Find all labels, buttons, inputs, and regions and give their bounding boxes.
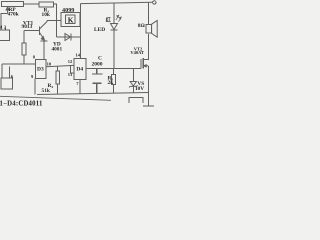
wire R5 bottom [113, 85, 115, 94]
zener VS symbol [130, 82, 136, 87]
speaker cone [152, 20, 158, 37]
LED symbol [111, 24, 118, 30]
resistor R2 (base) [22, 43, 26, 55]
resistor R4 51k [56, 71, 60, 84]
wire left input bus [2, 63, 36, 65]
wire R4 bottom [57, 84, 59, 94]
svg-text:51k: 51k [42, 88, 50, 94]
transistor VT1 collector [40, 21, 48, 30]
relay K outer box [61, 13, 80, 27]
svg-text:4099: 4099 [62, 7, 74, 14]
wire drop to D2 [1, 64, 3, 78]
wire R4 top [57, 67, 59, 72]
wire top rail left [24, 3, 40, 5]
relay K inner box [66, 15, 76, 24]
wire emitter bar [41, 41, 48, 60]
wire R1 to corner [54, 4, 57, 37]
wire D4 pin13 tie [71, 66, 75, 73]
svg-text:9013: 9013 [22, 24, 33, 30]
svg-text:14: 14 [76, 53, 81, 58]
svg-text:红: 红 [106, 16, 111, 23]
wire base to R2 [23, 31, 25, 44]
wire D3 output row [46, 65, 74, 66]
wire diode row [57, 36, 81, 38]
MOSFET VT2 gate lead [133, 67, 141, 69]
capacitor C plates [92, 68, 103, 93]
svg-text:1−D4:CD4011: 1−D4:CD4011 [0, 101, 43, 108]
diode YD 4001 [65, 34, 71, 41]
zener VS wire top [132, 68, 134, 81]
bottom bus [37, 93, 148, 95]
wire R5 top [113, 69, 115, 75]
MOSFET VT2 gate bar [140, 59, 142, 68]
wire VT1 base lead [24, 30, 40, 32]
resistor R5 2k [112, 75, 116, 85]
gate D4 box [74, 59, 86, 80]
wire wiper down-left [1, 14, 8, 30]
wire D1 pin2 stub [5, 28, 7, 30]
svg-text:)1 2: )1 2 [0, 24, 7, 29]
svg-text:4001: 4001 [52, 47, 63, 53]
svg-text:13: 13 [68, 72, 73, 77]
wire D4 pin7 [79, 80, 81, 94]
svg-text:D4: D4 [76, 66, 83, 72]
svg-text:470k: 470k [8, 12, 19, 18]
background [0, 0, 160, 110]
potentiometer RP wiper arrow [6, 7, 9, 14]
wire relay right lead [79, 19, 82, 21]
LED emission arrows [116, 15, 122, 22]
svg-text:10k: 10k [42, 12, 50, 18]
caption rule [0, 96, 111, 100]
gate D2 box [1, 78, 13, 89]
MOSFET VT2 source lead [143, 65, 148, 67]
svg-text:2000: 2000 [92, 62, 103, 68]
wire D3 pin9 drop [34, 79, 36, 95]
wire node column x=80.5 (V+ to D4 pin14) [80, 4, 82, 59]
svg-text:10V: 10V [135, 86, 144, 92]
speaker wire top [147, 2, 149, 24]
MOSFET VT2 drain lead [143, 34, 148, 60]
wire D4 output row [86, 67, 133, 69]
svg-text:D3: D3 [37, 67, 44, 73]
LED wire bottom [113, 30, 115, 69]
LED wire top [113, 3, 115, 24]
svg-text:K: K [68, 15, 74, 24]
labels [0, 7, 145, 108]
svg-text:12: 12 [68, 59, 73, 64]
bottom terminal bar [143, 93, 154, 107]
svg-text:8Ω: 8Ω [138, 23, 145, 29]
gate D1 box [0, 30, 10, 41]
gate D3 box [36, 60, 47, 79]
transistor VT1 emitter [40, 33, 45, 41]
svg-text:LED: LED [94, 27, 105, 33]
resistor R1 [39, 2, 54, 7]
terminal + [153, 1, 156, 4]
wire VT2 source down [147, 66, 149, 93]
speaker body [146, 25, 152, 34]
transistor VT1 base bar [39, 27, 41, 36]
svg-text:V40AT: V40AT [130, 50, 144, 55]
potentiometer RP body [2, 2, 24, 7]
zener wire bottom [132, 86, 134, 93]
wire pin6 [9, 67, 11, 79]
wire R2 to bus [23, 55, 25, 64]
wire V+ top rail [81, 2, 153, 3]
svg-text:2k: 2k [108, 80, 114, 86]
MOSFET VT2 channel bar [142, 58, 144, 69]
svg-text:10: 10 [47, 62, 52, 67]
wire collector rail [47, 20, 61, 22]
bottom-right bracket [129, 98, 143, 104]
